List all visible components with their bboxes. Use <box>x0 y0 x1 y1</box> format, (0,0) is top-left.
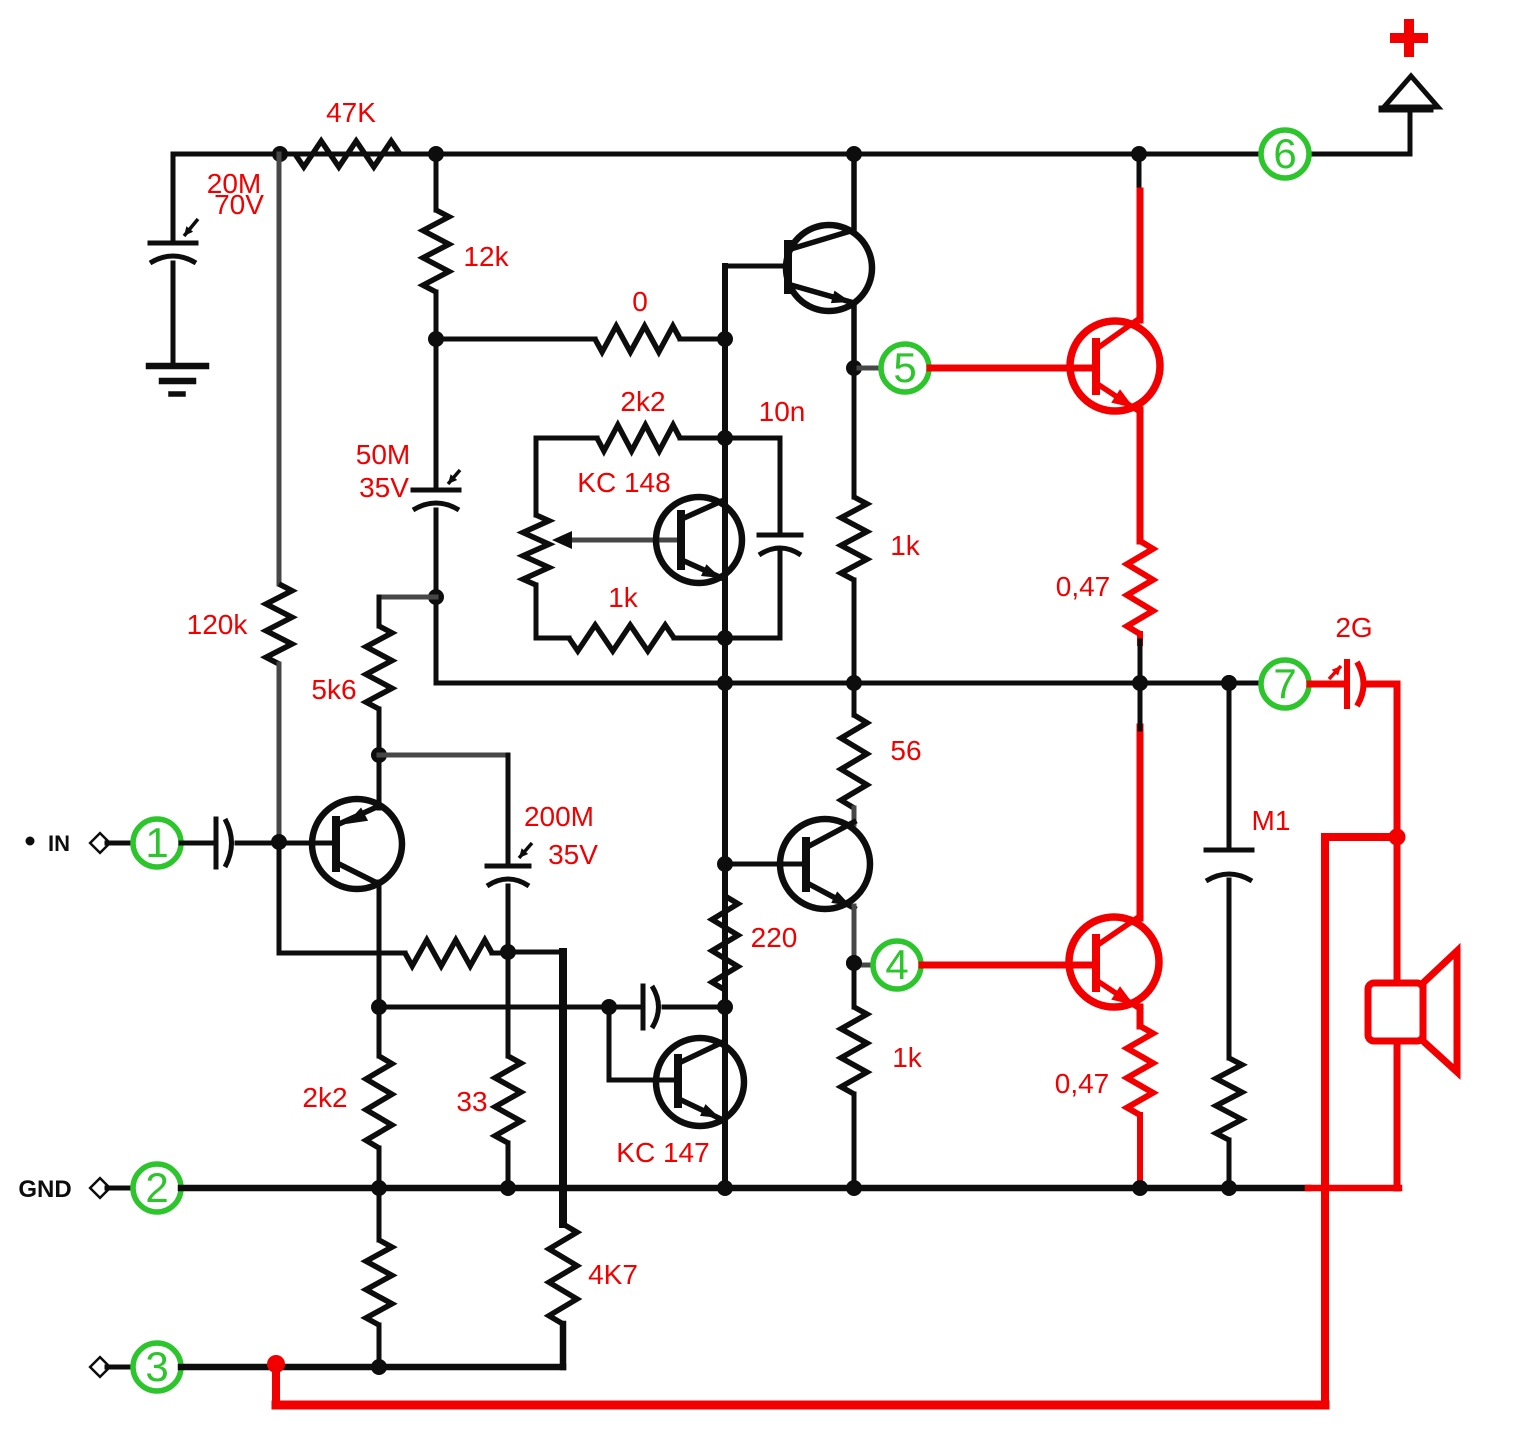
node mid rail junction <box>717 675 733 691</box>
wire 1k right column <box>852 368 857 497</box>
port 3 <box>90 1357 110 1377</box>
resistor 33 <box>495 1056 521 1143</box>
node F Q1 collector junction <box>371 747 387 763</box>
wire below-gnd resistor bottom <box>377 1325 382 1367</box>
wire base column of Q2 <box>725 266 788 339</box>
wire top supply rail <box>173 152 1260 157</box>
node I cap junction <box>717 999 733 1015</box>
svg-text:33: 33 <box>456 1086 487 1117</box>
wire to KC147 base <box>609 1078 678 1083</box>
terminal 7 <box>1261 660 1309 708</box>
node Q2 collector on rail <box>846 146 862 162</box>
transistor U2 KC 147 <box>656 1038 744 1126</box>
node C 12k bottom junction <box>428 331 444 347</box>
wire terminal 5 to Q5 base <box>930 365 1096 372</box>
wire red riser right <box>1321 837 1329 1405</box>
wire 56 to Q3 collector <box>852 808 857 824</box>
wire Q5 collector stub <box>1137 154 1142 193</box>
svg-text:1k: 1k <box>892 1042 923 1073</box>
wire terminal 1 to input cap <box>181 841 211 846</box>
wire node J down <box>607 1007 612 1080</box>
node red speaker junction <box>1389 829 1406 846</box>
node 7 junction <box>1221 675 1237 691</box>
resistor 0,47 lower <box>1127 1026 1153 1115</box>
wire Q5 collector red <box>1137 191 1144 320</box>
svg-text:2: 2 <box>145 1164 168 1211</box>
power + terminal arrow symbol <box>1384 76 1438 107</box>
wire red drop from node 3 <box>272 1364 280 1405</box>
resistor 0 <box>595 326 680 352</box>
wire stub to terminal 5 <box>854 366 880 371</box>
capacitor M1 <box>1206 848 1252 853</box>
wire 2k2 left to pot <box>536 436 597 441</box>
wire 0,47 lower to gnd rail <box>1137 1115 1143 1188</box>
capacitor 10n wire <box>725 438 780 535</box>
svg-text:2k2: 2k2 <box>302 1082 347 1113</box>
wire stub to terminal 4 <box>854 963 872 968</box>
wire node F to 200M cap <box>379 753 508 758</box>
wire 33 top lead <box>506 952 511 1056</box>
wire node L to thick column <box>508 950 563 955</box>
wire M1 branch to gnd <box>1227 1140 1232 1188</box>
terminal IN marker <box>26 837 35 846</box>
wire Q1 emitter <box>377 882 382 1007</box>
node 3 red junction <box>267 1355 285 1373</box>
svg-text:120k: 120k <box>187 609 249 640</box>
svg-text:4: 4 <box>885 941 908 988</box>
wire 50M branch <box>434 339 439 490</box>
svg-text:10n: 10n <box>759 396 806 427</box>
wire terminal 4 to Q6 base <box>922 962 1096 969</box>
svg-text:35V: 35V <box>548 839 598 870</box>
svg-text:0: 0 <box>632 286 648 317</box>
resistor M1 branch <box>1216 1058 1242 1140</box>
node gnd 33 <box>500 1180 516 1196</box>
svg-text:7: 7 <box>1273 660 1296 707</box>
node L junction <box>500 944 516 960</box>
svg-text:4K7: 4K7 <box>588 1259 638 1290</box>
wire 2G to corner <box>1367 681 1397 688</box>
wire base node down <box>277 842 282 953</box>
wire Q1 collector <box>377 755 382 808</box>
node 1k right top <box>846 675 862 691</box>
capacitor 20M 70V <box>150 241 196 246</box>
capacitor C coupling KC147 <box>641 986 646 1028</box>
wire Q3 base <box>725 862 806 867</box>
svg-text:0,47: 0,47 <box>1056 571 1111 602</box>
node B 47K right junction <box>428 146 444 162</box>
wire red riser top link <box>1325 833 1397 841</box>
wire 12k column <box>434 154 439 210</box>
wire 0 to node D <box>680 337 725 342</box>
svg-text:47K: 47K <box>326 97 376 128</box>
resistor 1k lower <box>841 1007 867 1094</box>
wire 2k2 lower top lead <box>377 1007 382 1056</box>
wire 1k lower to gnd <box>852 1094 857 1188</box>
terminal 2 <box>133 1164 181 1212</box>
polarity + of 2G <box>1329 666 1341 679</box>
svg-text:KC 147: KC 147 <box>616 1137 709 1168</box>
wire 200M to node L <box>506 886 511 952</box>
polarity + of 200M <box>519 843 532 858</box>
wire M1 branch upper <box>1227 683 1232 850</box>
transistor Q2 <box>786 225 872 311</box>
wire node E to mid rail corner <box>434 597 439 683</box>
wire 120k to base node <box>277 664 282 842</box>
svg-text:1: 1 <box>145 819 168 866</box>
node bottom rail junction <box>371 1359 387 1375</box>
wire speaker to gnd <box>1394 1041 1401 1188</box>
polarity + of 50M <box>448 470 460 484</box>
svg-text:200M: 200M <box>524 801 594 832</box>
svg-text:3: 3 <box>145 1343 168 1390</box>
resistor 0,47 upper <box>1127 541 1153 634</box>
resistor below ground <box>366 1240 392 1325</box>
wire thick column down <box>559 952 567 1224</box>
wire red bottom run <box>276 1401 1325 1410</box>
resistor 2k2 lower <box>366 1056 392 1148</box>
svg-text:1k: 1k <box>608 582 639 613</box>
svg-text:1k: 1k <box>890 530 921 561</box>
transistor Q1 <box>312 799 402 889</box>
wire 56 top lead <box>852 683 857 715</box>
port GND <box>90 1178 110 1198</box>
ground <box>149 363 206 370</box>
transistor Q6 <box>1069 917 1159 1007</box>
svg-text:12k: 12k <box>463 241 509 272</box>
node G 2k2 top junction <box>717 430 733 446</box>
resistor 2k2 upper <box>597 425 680 451</box>
polarity + of 20M <box>184 219 198 236</box>
node D junction <box>717 331 733 347</box>
wire 4K7 to bottom rail <box>560 1324 567 1367</box>
wire 1k loop to node H <box>674 636 725 641</box>
node A top-left junction <box>272 146 288 162</box>
node Q6 branch on mid rail <box>1132 675 1148 691</box>
node E junction <box>428 589 444 605</box>
wire below-gnd resistor top <box>377 1188 382 1240</box>
svg-text:M1: M1 <box>1252 805 1291 836</box>
capacitor 50M 35V <box>413 488 459 493</box>
wire main mid column <box>722 266 728 1188</box>
node Q5 collector on rail <box>1131 146 1147 162</box>
wire mid rail <box>436 681 1260 686</box>
node gnd mid column <box>717 1180 733 1196</box>
wire 2k2 lower to gnd <box>377 1148 382 1188</box>
transistor U1 KC 148 <box>656 497 742 583</box>
node H junction <box>717 630 733 646</box>
wire cap to node I <box>664 1005 725 1010</box>
wire node C to 0 resistor <box>436 337 595 342</box>
wire 0,47 upper bottom lead <box>1137 634 1143 643</box>
wire 33 to gnd <box>506 1143 511 1188</box>
node gnd M1 <box>1221 1180 1237 1196</box>
resistor 1k right <box>841 497 867 580</box>
wire feedback left <box>279 951 405 956</box>
wire 5k6 top lead <box>377 597 382 626</box>
wire feedback to node L <box>492 951 508 956</box>
svg-text:50M: 50M <box>356 439 410 470</box>
capacitor 10n <box>759 533 801 538</box>
wire 120k column upper <box>277 154 282 584</box>
wire Q3 emitter to node 4 <box>852 906 857 963</box>
resistor 120k <box>266 584 292 664</box>
wire speaker feed <box>1394 837 1401 985</box>
resistor feedback <box>405 940 492 966</box>
svg-text:KC 148: KC 148 <box>577 467 670 498</box>
wire 50M to node E <box>434 510 439 597</box>
node 5 junction <box>846 360 862 376</box>
wire y1007 left <box>379 1005 643 1010</box>
wire ground rail red end <box>1308 1185 1399 1192</box>
wire pot bottom lead <box>534 585 539 638</box>
wire 2k2 right to node G <box>680 436 725 441</box>
svg-text:6: 6 <box>1273 130 1296 177</box>
node 1k lower top <box>846 955 862 971</box>
capacitor 200M 35V <box>487 864 529 869</box>
wire IN to terminal 1 <box>107 841 133 846</box>
node M y1007 left junction <box>371 999 387 1015</box>
wire 10n bottom <box>725 552 780 638</box>
wire node E to 5k6 <box>379 595 436 600</box>
capacitor 2G <box>1344 662 1350 706</box>
node gnd 1k <box>846 1180 862 1196</box>
terminal 1 <box>133 819 181 867</box>
wire ground rail <box>181 1185 1308 1192</box>
speaker <box>1368 983 1423 1041</box>
capacitor input <box>214 819 219 867</box>
svg-text:220: 220 <box>751 922 798 953</box>
svg-text:5k6: 5k6 <box>311 674 356 705</box>
transistor Q3 <box>780 819 870 909</box>
svg-text:5: 5 <box>893 344 916 391</box>
svg-text:IN: IN <box>48 831 70 856</box>
node J junction <box>601 999 617 1015</box>
wire GND to terminal 2 <box>107 1186 133 1191</box>
pot wiper arrow <box>566 538 681 543</box>
svg-text:2G: 2G <box>1335 612 1372 643</box>
resistor 1k loop <box>569 625 674 651</box>
wire input cap to base node <box>237 841 336 846</box>
svg-text:35V: 35V <box>359 472 409 503</box>
node mid rail M1 junction <box>1221 675 1237 691</box>
node 4 junction <box>846 955 862 971</box>
wire 200M top lead <box>506 755 511 865</box>
wire Q6 collector black stub <box>1138 683 1143 729</box>
wire left branch down from rail <box>171 154 176 243</box>
wire 1k right bottom <box>852 580 857 683</box>
resistor 5k6 <box>366 626 392 709</box>
wire 12k bottom <box>434 292 439 339</box>
resistor 12k <box>423 210 449 292</box>
wire M1 branch lower <box>1227 880 1232 1058</box>
svg-text:56: 56 <box>890 735 921 766</box>
label + supply <box>1390 33 1428 43</box>
terminal 6 <box>1261 130 1309 178</box>
wire 1k lower top lead <box>852 963 857 1007</box>
node gnd 0,47 <box>1132 1180 1148 1196</box>
wire 1k loop bottom lead <box>536 636 569 641</box>
wire pot top lead <box>534 438 539 515</box>
port IN <box>90 833 110 853</box>
svg-text:GND: GND <box>18 1176 71 1203</box>
wire Q6 collector red <box>1137 727 1144 918</box>
wire Q5 emitter red <box>1137 410 1144 541</box>
wire Q6 emitter red <box>1137 1007 1144 1026</box>
resistor 220 top lead <box>722 864 728 896</box>
node gnd 2k2 <box>371 1180 387 1196</box>
transistor Q5 <box>1070 321 1160 411</box>
wire bottom rail <box>181 1364 563 1371</box>
wire terminal 7 to 2G <box>1310 681 1343 688</box>
node Q3 base junction <box>717 856 733 872</box>
potentiometer <box>523 515 549 585</box>
svg-text:0,47: 0,47 <box>1055 1068 1110 1099</box>
resistor 4K7 <box>549 1224 577 1324</box>
wire 5k6 to node F <box>377 709 382 755</box>
wire 20M to ground <box>171 263 176 366</box>
svg-text:2k2: 2k2 <box>620 386 665 417</box>
resistor 56 <box>841 715 867 808</box>
terminal 4 <box>873 941 921 989</box>
resistor 47K <box>295 141 400 167</box>
wire supply rail corner up to + terminal <box>1408 108 1413 154</box>
wire port 3 to terminal 3 <box>107 1365 133 1370</box>
wire 2G corner down <box>1394 684 1401 837</box>
svg-text:70V: 70V <box>214 189 264 220</box>
terminal 5 <box>881 344 929 392</box>
node K base junction <box>271 834 287 850</box>
resistor 220 <box>712 896 738 990</box>
terminal 3 <box>133 1343 181 1391</box>
